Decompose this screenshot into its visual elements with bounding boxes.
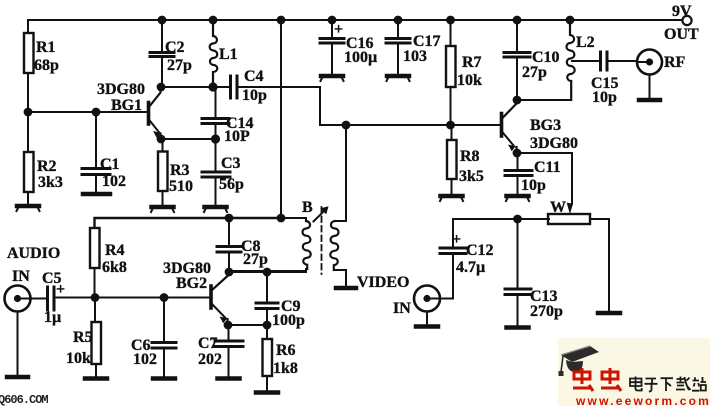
node BG1 collector <box>157 83 166 92</box>
wire C12 bottom to video jack <box>427 254 453 299</box>
wire +9V top rail <box>28 19 682 21</box>
svg-text:R8: R8 <box>460 148 480 165</box>
svg-text:W: W <box>550 199 566 216</box>
svg-text:R4: R4 <box>105 242 125 259</box>
node C8 top <box>225 214 234 223</box>
svg-text:68p: 68p <box>34 57 59 74</box>
svg-text:RF: RF <box>664 54 686 71</box>
wire W right to ground <box>591 219 609 312</box>
svg-text:www.eeworm.com: www.eeworm.com <box>575 394 710 406</box>
ground R5 <box>85 376 107 381</box>
svg-text:+: + <box>56 281 65 298</box>
wire R8 bottom <box>451 179 453 194</box>
wire C13 top <box>517 219 519 289</box>
svg-text:103: 103 <box>403 48 427 65</box>
wire C9 bottom <box>266 309 268 325</box>
svg-text:IN: IN <box>12 268 30 285</box>
svg-text:AUDIO: AUDIO <box>7 245 60 262</box>
wire BG1 emitter node run <box>161 138 216 140</box>
node C9 top <box>263 268 272 277</box>
wire secondary top to base line <box>335 125 346 221</box>
ground RF jack <box>639 98 660 103</box>
wire C16 top <box>331 20 333 38</box>
wire secondary bottom to ground <box>335 270 346 286</box>
wire R4 bottom <box>94 268 96 297</box>
svg-text:56p: 56p <box>219 176 244 193</box>
svg-text:10p: 10p <box>242 87 267 104</box>
wire W left to C13 node <box>453 218 549 220</box>
inductor L1 <box>210 20 218 87</box>
svg-text:C1: C1 <box>100 156 120 173</box>
wire C1 bottom <box>95 175 97 192</box>
inductor L2 <box>567 20 575 100</box>
node BG2 collector <box>225 268 234 277</box>
wire primary bottom to BG2 collector node <box>229 269 306 271</box>
wire R2 bottom <box>27 192 29 204</box>
node BG3 emitter <box>513 149 522 158</box>
wire C13 bottom <box>517 295 519 326</box>
connector AUDIO IN jack <box>5 286 31 312</box>
capacitor C9 <box>256 303 278 309</box>
svg-text:3DG80: 3DG80 <box>97 81 145 98</box>
svg-text:1k8: 1k8 <box>273 360 298 377</box>
svg-text:R1: R1 <box>36 39 56 56</box>
ground C7 <box>218 376 240 381</box>
svg-text:270p: 270p <box>530 303 563 320</box>
svg-text:BG2: BG2 <box>176 275 207 292</box>
svg-text:R5: R5 <box>73 329 93 346</box>
node R4-R5-base <box>91 293 100 302</box>
svg-text:10k: 10k <box>457 72 482 89</box>
resistor R8 <box>447 140 457 179</box>
svg-text:R2: R2 <box>37 158 57 175</box>
svg-text:4.7µ: 4.7µ <box>456 259 485 276</box>
wire C6 bottom <box>163 349 165 378</box>
wire BG2 base line <box>55 297 211 299</box>
svg-text:L1: L1 <box>219 46 238 63</box>
potentiometer W <box>548 214 590 224</box>
node rail-L2 <box>566 16 575 25</box>
transformer B core dashed <box>321 207 323 274</box>
wire R1 top feed <box>27 20 29 33</box>
svg-text:BG1: BG1 <box>111 97 142 114</box>
wire C3 bottom <box>215 178 217 206</box>
transistor BG3 <box>502 100 517 153</box>
wire R7 top <box>450 20 452 46</box>
wire BG1 base line <box>28 111 147 113</box>
capacitor C8 <box>217 247 241 253</box>
wire C10 bottom <box>516 58 518 101</box>
svg-text:R6: R6 <box>276 342 296 359</box>
capacitor C2 <box>150 53 174 57</box>
capacitor C13 <box>505 289 531 295</box>
svg-text:102: 102 <box>133 351 157 368</box>
wire BG3 emitter run to W wiper <box>517 153 572 204</box>
wire R6 top <box>266 325 268 339</box>
wire video jack ground stub <box>426 312 428 326</box>
node L1-C4-C14 <box>208 82 217 91</box>
wire C17 top <box>397 20 399 38</box>
capacitor C4 <box>231 76 238 98</box>
node C9-R6 <box>263 321 272 330</box>
wire supply branch to R4 <box>95 218 282 228</box>
capacitor C3 <box>202 172 230 177</box>
svg-text:Q606.COM: Q606.COM <box>0 393 48 406</box>
wire L1 node to C4 <box>213 86 230 88</box>
wire C6 top <box>163 298 165 343</box>
wire R7 bottom to base line <box>450 87 452 125</box>
capacitor C6 <box>152 343 176 349</box>
node rail-C17 <box>394 16 403 25</box>
svg-text:C3: C3 <box>221 155 241 172</box>
ground audio jack <box>7 375 28 380</box>
transistor BG2 <box>211 272 228 325</box>
svg-text:C12: C12 <box>466 242 494 259</box>
svg-text:C11: C11 <box>534 159 561 176</box>
capacitor C11 <box>505 171 532 176</box>
node rail-drop <box>277 16 286 25</box>
svg-text:3DG80: 3DG80 <box>530 135 578 152</box>
capacitor C5 <box>48 287 55 310</box>
wire C2 top <box>161 20 163 52</box>
ground R8 <box>440 196 463 201</box>
svg-text:1µ: 1µ <box>44 309 61 326</box>
transistor BG1 <box>149 88 161 140</box>
wire R5 top <box>94 298 96 323</box>
wire C3 top <box>215 139 217 172</box>
node supply branch <box>277 214 286 223</box>
wire C17 bottom <box>397 44 399 75</box>
svg-text:+: + <box>334 21 343 38</box>
svg-text:+: + <box>452 231 461 248</box>
wire R2 top <box>27 112 29 152</box>
svg-text:R7: R7 <box>462 54 482 71</box>
wire C2 bottom to collector node <box>161 57 163 87</box>
svg-text:VIDEO: VIDEO <box>357 274 409 291</box>
ground C11 <box>506 196 529 201</box>
ground R6 <box>256 390 278 395</box>
ground C16 <box>321 76 344 81</box>
logo text dianzi xiazaizhan <box>630 377 706 392</box>
node rail-C10 <box>513 16 522 25</box>
connector RF jack <box>637 50 662 75</box>
svg-text:27p: 27p <box>167 57 192 74</box>
wire R5 bottom <box>95 364 97 377</box>
svg-text:510: 510 <box>169 178 193 195</box>
ground R3 <box>151 207 174 212</box>
svg-text:C7: C7 <box>198 335 218 352</box>
ground C1 <box>83 192 110 197</box>
svg-text:BG3: BG3 <box>530 117 561 134</box>
wire C10 top <box>516 20 518 52</box>
wire C4 right run to bend <box>238 87 321 125</box>
node base line-transformer <box>342 121 351 130</box>
svg-text:10P: 10P <box>224 128 250 145</box>
ground C3 <box>204 207 227 212</box>
connector VIDEO IN jack <box>414 286 440 312</box>
capacitor C7 <box>215 341 243 347</box>
resistor R7 <box>446 46 456 87</box>
wiper arrow of W <box>567 203 572 212</box>
terminal 9V OUT <box>682 16 691 25</box>
svg-text:C4: C4 <box>244 68 264 85</box>
transformer B primary winding <box>303 221 311 269</box>
resistor R3 <box>158 152 168 192</box>
node BG1 emitter <box>157 135 166 144</box>
svg-text:B: B <box>302 199 313 216</box>
wire C7 bottom <box>228 347 230 377</box>
wire C10 to L2 bottom <box>517 99 570 101</box>
wire BG2 emitter node run <box>228 324 267 326</box>
wire C16 bottom <box>331 44 333 75</box>
wire C8 bottom <box>228 253 230 273</box>
wire R6 bottom <box>266 376 268 391</box>
logo eeworm background <box>558 338 710 406</box>
resistor R4 <box>90 228 100 268</box>
ground C17 <box>387 76 410 81</box>
wire C9 top <box>266 272 268 303</box>
svg-text:202: 202 <box>198 351 222 368</box>
wire C7 top <box>228 325 230 341</box>
wire collector node to L1 node <box>161 86 213 88</box>
svg-text:3k5: 3k5 <box>459 168 484 185</box>
wire R8 top <box>451 125 453 140</box>
resistor R6 <box>263 339 273 376</box>
node C10-L2-BG3 <box>513 96 522 105</box>
svg-text:9V: 9V <box>672 3 692 20</box>
wire RF jack ground stub <box>649 75 651 99</box>
wire C14 bottom <box>215 124 217 139</box>
wire rail drop to transformer node <box>280 20 282 218</box>
svg-text:100p: 100p <box>272 312 305 329</box>
capacitor C15 <box>601 52 608 70</box>
svg-text:27p: 27p <box>243 251 268 268</box>
svg-text:OUT: OUT <box>664 26 699 43</box>
wire R1 bottom to node <box>27 73 29 112</box>
wire audio jack ground stub <box>17 312 19 376</box>
wire L2 tap to C15 <box>572 60 600 62</box>
svg-text:C2: C2 <box>165 39 185 56</box>
node R1-R2 <box>24 108 33 117</box>
wire R3 bottom <box>162 191 164 205</box>
wire C12 top <box>452 219 454 248</box>
node rail-C16 <box>328 16 337 25</box>
logo graduation cap <box>559 346 600 376</box>
ground C6 <box>153 376 175 381</box>
svg-text:10p: 10p <box>592 89 617 106</box>
logo chongchong red characters <box>573 368 621 391</box>
svg-text:R3: R3 <box>170 162 190 179</box>
wire C8 top <box>228 218 230 246</box>
capacitor C17 <box>386 39 410 44</box>
node C6 top <box>160 293 169 302</box>
svg-text:10k: 10k <box>66 350 91 367</box>
transformer B primary top feed <box>281 218 306 221</box>
svg-text:10p: 10p <box>521 177 546 194</box>
wire R3 top <box>162 139 164 152</box>
wire C11 top <box>517 153 519 170</box>
ground transformer secondary <box>336 286 356 291</box>
wire BG2 collector node run <box>229 271 306 273</box>
ground video jack <box>416 324 438 329</box>
ground C13 <box>507 325 529 330</box>
wire audio jack to C5 <box>18 298 48 299</box>
capacitor C12 <box>440 248 466 254</box>
svg-text:100µ: 100µ <box>344 49 377 66</box>
transformer B secondary winding <box>330 221 338 270</box>
transformer B tuning arrow <box>314 207 328 222</box>
node C14-C3 <box>211 134 220 143</box>
svg-text:3k3: 3k3 <box>38 174 63 191</box>
node rail-R7 <box>446 16 455 25</box>
capacitor C16 <box>320 39 344 44</box>
wire bend to BG3 base <box>320 124 500 126</box>
svg-text:IN: IN <box>393 300 411 317</box>
wire C1 top <box>95 112 97 168</box>
svg-text:L2: L2 <box>576 34 595 51</box>
node BG2 emitter <box>224 321 233 330</box>
wire C11 bottom <box>517 176 519 194</box>
resistor R2 <box>24 152 34 192</box>
node rail-C2 <box>158 16 167 25</box>
node C1-base <box>92 108 101 117</box>
ground R2 <box>17 206 40 211</box>
svg-text:102: 102 <box>102 173 126 190</box>
svg-text:6k8: 6k8 <box>102 259 127 276</box>
capacitor C1 <box>82 169 110 175</box>
wire C15 to RF jack <box>608 60 650 62</box>
wire C14 top <box>215 87 217 118</box>
capacitor C10 <box>504 53 530 58</box>
node rail-L1 <box>209 16 218 25</box>
svg-text:27p: 27p <box>522 64 547 81</box>
node C13-W <box>513 215 522 224</box>
node base line-R7R8 <box>446 121 455 130</box>
resistor R1 <box>24 33 34 73</box>
ground W <box>598 311 620 316</box>
capacitor C14 <box>202 119 229 124</box>
resistor R5 <box>92 322 102 364</box>
